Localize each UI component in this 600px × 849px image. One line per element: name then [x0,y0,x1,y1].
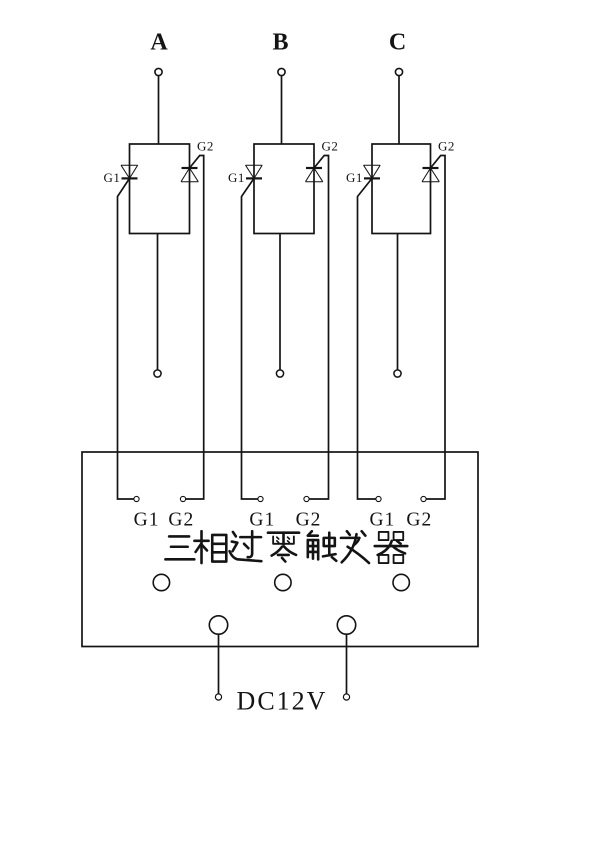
char 器 [375,532,408,563]
terminal G1-B on trigger box [258,496,263,501]
char 触 [308,531,336,561]
char 三 [165,536,194,559]
thyristor module C case [372,144,431,234]
wire phase B input to module [281,76,283,144]
svg-text:B: B [272,29,288,55]
terminal G1-A on trigger box [134,496,139,501]
svg-text:G2: G2 [438,139,455,154]
terminal C (phase input) [395,68,402,75]
indicator circle 3 on trigger box [393,574,409,590]
trigger box (three-phase zero-crossing trigger unit) [82,452,478,647]
DC terminal + on trigger box [209,616,227,634]
thyristor module A case [130,144,190,234]
thyristor V6 (right, G2) [422,168,439,182]
wire gate G1 of module A to trigger terminal [118,178,134,499]
svg-text:G1: G1 [134,510,160,531]
svg-text:DC12V: DC12V [237,687,328,716]
thyristor V3 (left, G1) [246,165,263,178]
wire phase A input to module [158,76,160,144]
terminal G1-C on trigger box [376,496,381,501]
terminal DC + external [215,694,221,700]
svg-text:G1: G1 [346,170,363,185]
terminal A (phase input) [155,68,162,75]
wire module C output [397,234,399,370]
wire gate G1 of module C to trigger terminal [358,178,376,499]
char 零 [268,533,299,562]
svg-text:G2: G2 [296,510,322,531]
svg-text:G1: G1 [249,510,275,531]
wire gate G2 of module C to trigger terminal [426,156,445,500]
svg-text:G2: G2 [322,139,339,154]
char 过 [230,531,262,561]
svg-text:G2: G2 [197,139,214,154]
svg-text:A: A [150,29,168,55]
thyristor V2 (right, G2) [181,168,198,182]
DC terminal - on trigger box [337,616,355,634]
svg-text:G1: G1 [369,510,395,531]
char 发 [341,531,369,563]
svg-text:G2: G2 [168,510,194,531]
terminal module A output [154,370,161,377]
wire DC + lead [218,634,220,694]
terminal B (phase input) [278,68,285,75]
thyristor V4 (right, G2) [306,168,323,182]
wire DC - lead [346,634,348,694]
indicator circle 2 on trigger box [275,574,291,590]
wire gate G2 of module B to trigger terminal [309,156,328,500]
terminal G2-B on trigger box [304,496,309,501]
thyristor V1 (left, G1) [121,165,138,178]
terminal module B output [276,370,283,377]
thyristor module B case [254,144,314,234]
svg-text:G1: G1 [228,170,245,185]
terminal G2-A on trigger box [180,496,185,501]
wire gate G2 of module A to trigger terminal [186,156,204,500]
wire module B output [279,234,281,370]
svg-text:G1: G1 [103,170,120,185]
char 相 [194,531,226,563]
terminal module C output [394,370,401,377]
terminal DC - external [343,694,349,700]
indicator circle 1 on trigger box [153,574,169,590]
svg-text:C: C [389,29,406,55]
wire phase C input to module [398,76,400,144]
wire gate G1 of module B to trigger terminal [242,178,258,499]
title 三相过零触发器 (three-phase zero-crossing trigger) [165,531,407,563]
svg-text:G2: G2 [406,510,432,531]
thyristor V5 (left, G1) [364,165,381,178]
wire module A output [157,234,159,370]
terminal G2-C on trigger box [421,496,426,501]
